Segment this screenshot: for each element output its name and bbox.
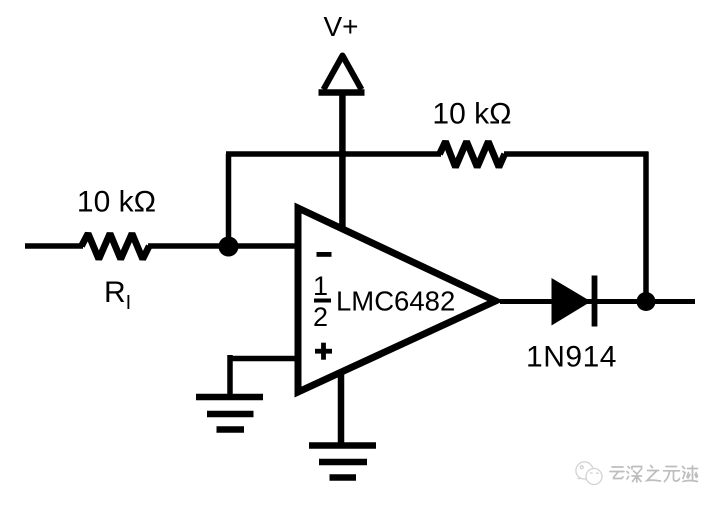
svg-text:1N914: 1N914 [526, 341, 617, 374]
svg-text:10 kΩ: 10 kΩ [77, 186, 156, 219]
svg-text:10 kΩ: 10 kΩ [432, 98, 511, 131]
svg-text:1: 1 [313, 271, 328, 301]
svg-text:V+: V+ [323, 11, 358, 42]
svg-text:2: 2 [313, 302, 328, 332]
svg-text:LMC6482: LMC6482 [336, 286, 455, 317]
